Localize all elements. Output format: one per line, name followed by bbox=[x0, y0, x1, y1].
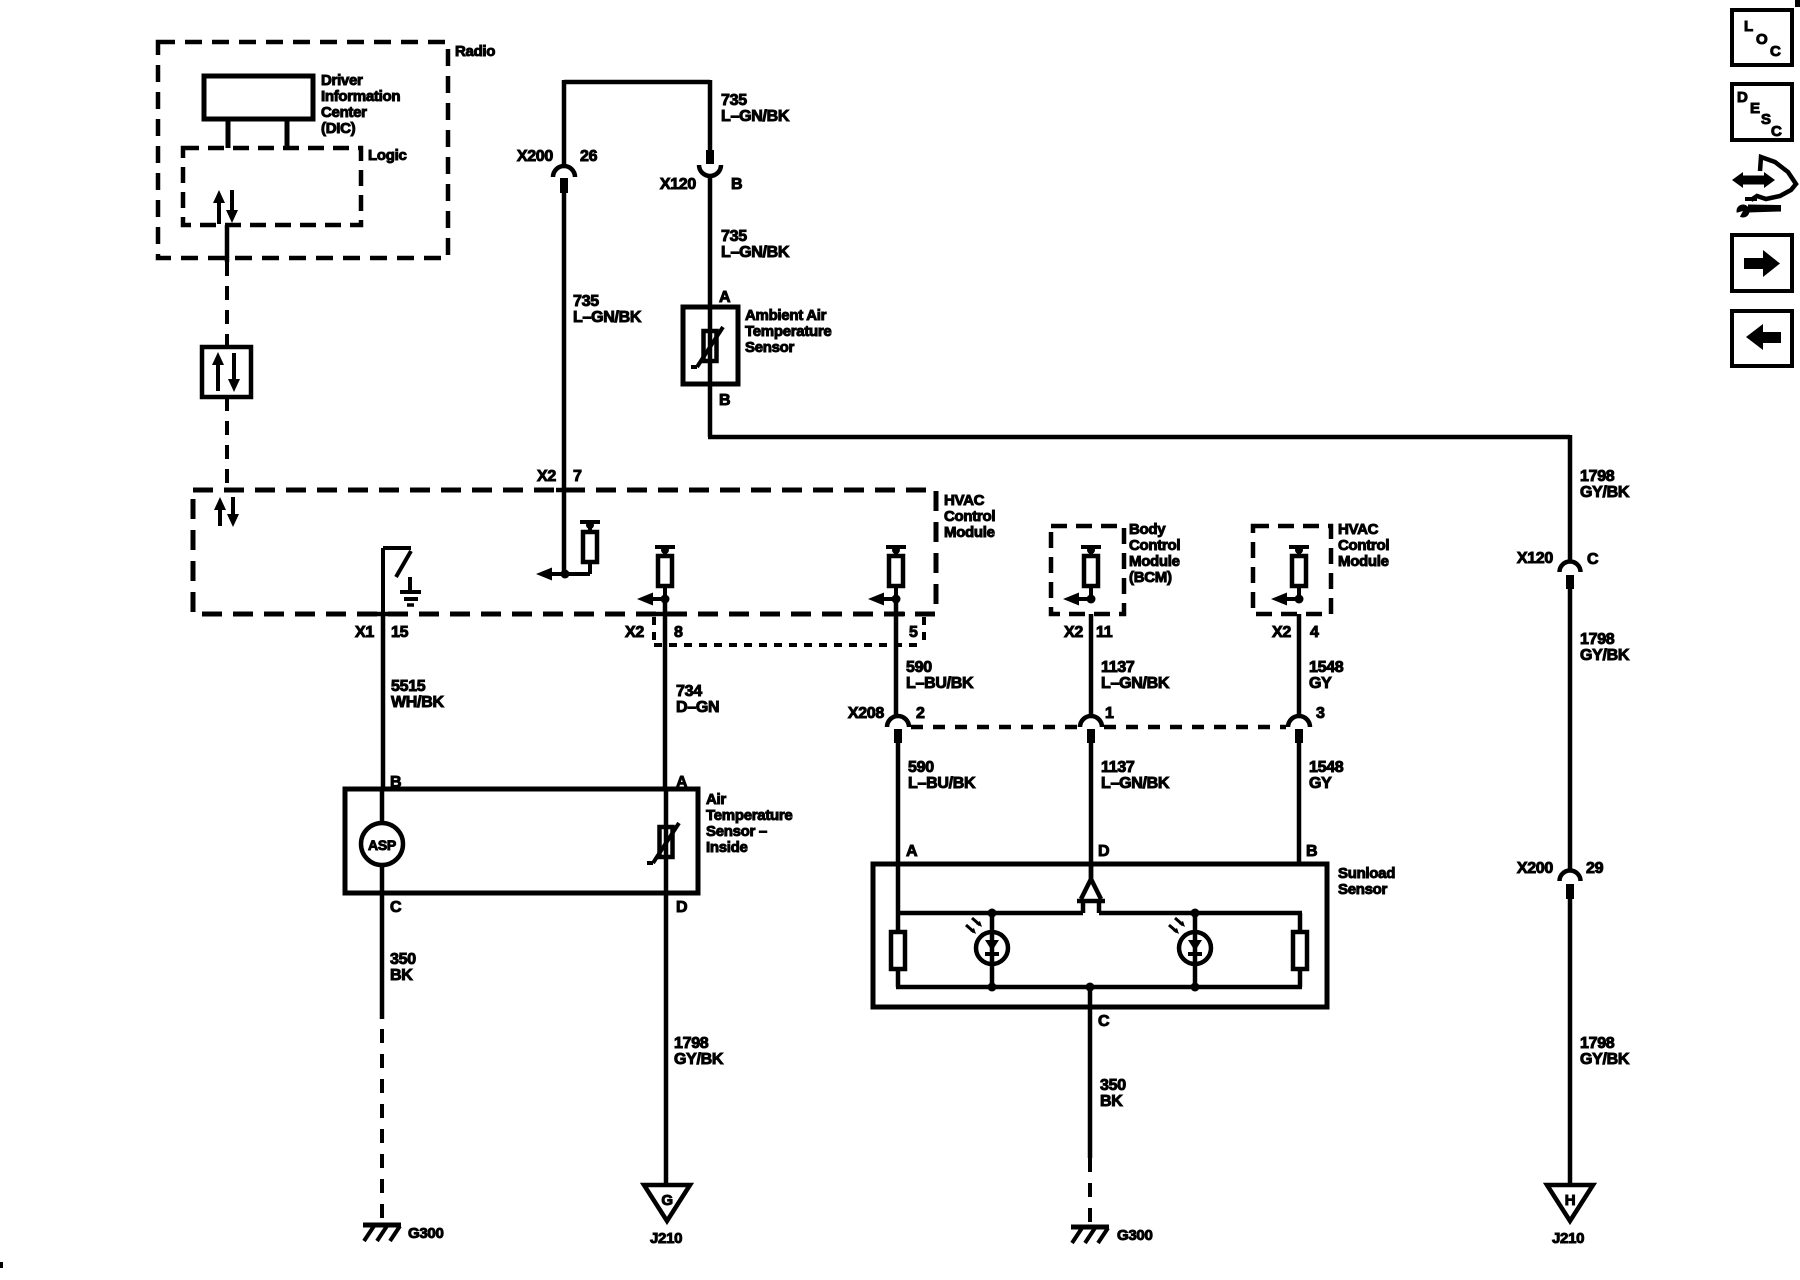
wire to connector X200 26 bbox=[562, 80, 567, 166]
svg-text:X2: X2 bbox=[537, 468, 556, 485]
X2 connector dashed region under HVAC module bbox=[654, 617, 924, 645]
pin label A inside sensor bbox=[676, 774, 688, 791]
pin label D bbox=[676, 899, 687, 916]
pin label C bbox=[390, 899, 402, 916]
wire D into sunload amplifier bbox=[1089, 864, 1094, 881]
svg-text:Module: Module bbox=[944, 524, 995, 541]
svg-text:HVAC: HVAC bbox=[944, 492, 985, 509]
wire label 590 L-BU/BK lower bbox=[908, 759, 976, 792]
edge tick X2 8 bbox=[656, 612, 674, 617]
photodiode left bbox=[966, 909, 1008, 992]
svg-text:Module: Module bbox=[1129, 553, 1180, 570]
svg-text:Sensor: Sensor bbox=[745, 339, 795, 356]
wire label 735 L-GN/BK bbox=[573, 293, 642, 326]
dashed serial data wire bbox=[225, 262, 229, 347]
svg-text:590: 590 bbox=[908, 759, 934, 776]
sunload internal top bus bbox=[896, 911, 1302, 916]
svg-text:J210: J210 bbox=[1552, 1230, 1584, 1247]
svg-text:C: C bbox=[390, 899, 402, 916]
svg-text:11: 11 bbox=[1096, 624, 1113, 641]
ambient air temperature sensor box bbox=[683, 307, 738, 384]
serial data arrows in link box bbox=[212, 352, 240, 392]
serial data link box bbox=[202, 347, 251, 397]
amplifier triangle bbox=[1077, 879, 1105, 913]
connector X120 pin C bbox=[1560, 562, 1581, 590]
svg-text:C: C bbox=[1098, 1013, 1110, 1030]
ground G300 left bbox=[363, 1225, 401, 1241]
ground G300 middle bbox=[1071, 1227, 1109, 1243]
svg-text:Driver: Driver bbox=[321, 72, 363, 89]
svg-text:1: 1 bbox=[1105, 705, 1114, 722]
svg-text:X120: X120 bbox=[1517, 550, 1554, 567]
connector X208 pin 3 bbox=[1288, 716, 1310, 743]
wire 1798 GY/BK to J210 H bbox=[1568, 899, 1573, 1185]
edge tick X2 7 bbox=[556, 488, 574, 493]
pin label B inside sensor left wire bbox=[390, 774, 401, 791]
svg-text:GY/BK: GY/BK bbox=[1580, 647, 1630, 664]
svg-text:X2: X2 bbox=[1272, 624, 1291, 641]
label G300 middle bbox=[1117, 1227, 1153, 1244]
svg-text:D: D bbox=[676, 899, 687, 916]
svg-text:734: 734 bbox=[676, 683, 702, 700]
wire through ambient sensor bbox=[708, 307, 713, 384]
X208 dashed connector line bbox=[911, 725, 1286, 730]
svg-text:1548: 1548 bbox=[1309, 659, 1344, 676]
label Ambient Air Temperature Sensor bbox=[745, 307, 831, 356]
svg-text:GY: GY bbox=[1309, 775, 1332, 792]
air temperature sensor inside box bbox=[345, 789, 698, 893]
pin labels X2 7 bbox=[537, 468, 582, 485]
svg-text:735: 735 bbox=[721, 92, 747, 109]
label HVAC Control Module right bbox=[1338, 521, 1389, 570]
wire 350 BK to G300 left solid bbox=[380, 893, 385, 1019]
svg-text:L–BU/BK: L–BU/BK bbox=[906, 675, 974, 692]
svg-text:Temperature: Temperature bbox=[706, 807, 792, 824]
svg-text:Sensor –: Sensor – bbox=[706, 823, 767, 840]
svg-text:X200: X200 bbox=[517, 148, 554, 165]
pin label 5 bbox=[909, 624, 918, 641]
label 1 bbox=[1105, 705, 1114, 722]
edge tick X1 15 bbox=[374, 612, 392, 617]
svg-text:E: E bbox=[1750, 100, 1760, 117]
wire 1798 GY/BK to X200 29 bbox=[1568, 589, 1573, 871]
svg-text:C: C bbox=[1587, 551, 1599, 568]
wire 5515 WH/BK X1-15 to sensor B bbox=[381, 614, 386, 789]
wire label 1798 GY/BK bottom bbox=[1580, 1035, 1630, 1068]
svg-text:X2: X2 bbox=[625, 624, 644, 641]
wire through sensor right bbox=[664, 789, 669, 893]
label Driver Information Center (DIC) bbox=[321, 72, 400, 137]
inside sensor thermistor bbox=[647, 823, 679, 863]
svg-text:BK: BK bbox=[1100, 1093, 1123, 1110]
serial data arrows inside HVAC module bbox=[214, 497, 239, 527]
svg-text:Module: Module bbox=[1338, 553, 1389, 570]
svg-text:H: H bbox=[1565, 1192, 1576, 1209]
svg-text:G300: G300 bbox=[408, 1225, 444, 1242]
icon DESC box bbox=[1732, 84, 1792, 140]
svg-text:C: C bbox=[1770, 43, 1781, 60]
svg-text:L–GN/BK: L–GN/BK bbox=[573, 309, 642, 326]
wire label 735 L-GN/BK top bbox=[721, 92, 790, 125]
svg-text:C: C bbox=[1771, 123, 1782, 140]
svg-text:L–BU/BK: L–BU/BK bbox=[908, 775, 976, 792]
label Logic bbox=[368, 147, 407, 164]
connector X208 pin 2 bbox=[887, 716, 909, 743]
svg-text:HVAC: HVAC bbox=[1338, 521, 1379, 538]
svg-text:S: S bbox=[1761, 111, 1771, 128]
sunload sensor box bbox=[873, 864, 1327, 1007]
edge tick pin 5 bbox=[887, 612, 905, 617]
svg-text:Body: Body bbox=[1129, 521, 1166, 538]
svg-text:GY/BK: GY/BK bbox=[674, 1051, 724, 1068]
wire 590 L-BU/BK pin5 to X208 2 bbox=[894, 599, 899, 716]
pin labels X2 11 bbox=[1064, 624, 1113, 641]
wire 1798 GY/BK ambient to X120 C bbox=[708, 384, 1570, 562]
svg-text:7: 7 bbox=[573, 468, 582, 485]
pin label B sunload bbox=[1306, 843, 1317, 860]
wire 734 D-GN pin8 to sensor A bbox=[663, 599, 668, 789]
body control module BCM dashed box bbox=[1051, 526, 1124, 614]
labels X208 2 bbox=[848, 705, 925, 722]
svg-text:X208: X208 bbox=[848, 705, 885, 722]
icon back arrow box bbox=[1732, 311, 1792, 366]
label Radio bbox=[455, 43, 495, 60]
svg-text:X2: X2 bbox=[1064, 624, 1083, 641]
svg-text:Sensor: Sensor bbox=[1338, 881, 1388, 898]
svg-text:15: 15 bbox=[391, 624, 409, 641]
svg-text:1798: 1798 bbox=[1580, 631, 1615, 648]
logic dashed box bbox=[183, 148, 361, 225]
svg-text:3: 3 bbox=[1316, 705, 1325, 722]
photodiode right bbox=[1169, 909, 1211, 992]
svg-text:26: 26 bbox=[580, 148, 598, 165]
signal arrow at pin X2 7 bbox=[536, 568, 570, 581]
driver information center DIC box bbox=[204, 76, 313, 119]
wire label 1798 GY/BK right top bbox=[1580, 468, 1630, 501]
label J210 left bbox=[650, 1230, 682, 1247]
svg-text:X200: X200 bbox=[1517, 860, 1554, 877]
svg-text:2: 2 bbox=[916, 705, 925, 722]
sunload left resistor bbox=[891, 913, 905, 987]
svg-text:D: D bbox=[1098, 843, 1109, 860]
wire label 1798 GY/BK mid bbox=[1580, 631, 1630, 664]
wire 735 L-GN/BK to ambient sensor bbox=[708, 176, 713, 307]
signal arrow HVAC right bbox=[1271, 593, 1304, 606]
internal resistor at pin X2 8 bbox=[655, 546, 675, 599]
svg-text:590: 590 bbox=[906, 659, 932, 676]
svg-text:Center: Center bbox=[321, 104, 367, 121]
svg-text:B: B bbox=[1306, 843, 1317, 860]
svg-text:L–GN/BK: L–GN/BK bbox=[721, 244, 790, 261]
pin label D sunload bbox=[1098, 843, 1109, 860]
svg-text:G: G bbox=[661, 1192, 672, 1209]
svg-text:X120: X120 bbox=[660, 176, 697, 193]
splice pack J210 G bbox=[644, 1185, 690, 1221]
labels X200 29 bbox=[1517, 860, 1604, 877]
ambient sensor thermistor bbox=[691, 327, 723, 367]
wire 1798 GY/BK sensor D to J210 G bbox=[664, 893, 669, 1185]
svg-text:B: B bbox=[719, 392, 730, 409]
signal arrow BCM bbox=[1063, 593, 1096, 606]
labels X120 C bbox=[1517, 550, 1599, 568]
page corner mark bbox=[1795, 0, 1800, 7]
wire 1548 GY to X208 3 bbox=[1297, 614, 1302, 716]
svg-text:Control: Control bbox=[944, 508, 995, 525]
svg-text:GY: GY bbox=[1309, 675, 1332, 692]
wire C out of sunload bbox=[1088, 987, 1093, 1158]
pin labels X2 4 bbox=[1272, 624, 1319, 641]
sunload right resistor bbox=[1293, 913, 1307, 987]
wire label 1548 GY lower bbox=[1309, 759, 1344, 792]
svg-text:Temperature: Temperature bbox=[745, 323, 831, 340]
svg-text:Control: Control bbox=[1129, 537, 1180, 554]
svg-text:1137: 1137 bbox=[1101, 659, 1135, 676]
svg-text:L: L bbox=[1744, 18, 1753, 35]
dashed wire to G300 middle bbox=[1088, 1158, 1092, 1222]
pin labels X1 15 bbox=[355, 624, 409, 641]
label Body Control Module BCM bbox=[1129, 521, 1180, 586]
svg-text:D: D bbox=[1737, 89, 1748, 106]
svg-text:ASP: ASP bbox=[368, 837, 396, 853]
pin labels X2 8 bbox=[625, 624, 683, 641]
sunload internal bottom bus bbox=[896, 983, 1302, 992]
svg-text:4: 4 bbox=[1310, 624, 1319, 641]
wire 1137 L-GN/BK to X208 1 bbox=[1089, 614, 1094, 716]
svg-text:Ambient Air: Ambient Air bbox=[745, 307, 827, 324]
svg-text:Air: Air bbox=[706, 791, 726, 808]
labels X200 26 bbox=[517, 148, 598, 165]
internal resistor HVAC pin X2 4 bbox=[1289, 546, 1309, 599]
svg-text:WH/BK: WH/BK bbox=[391, 694, 444, 711]
wire label 1137 L-GN/BK upper bbox=[1101, 659, 1170, 692]
svg-text:Inside: Inside bbox=[706, 839, 748, 856]
icon forward arrow box bbox=[1732, 235, 1792, 291]
pin label C sunload bbox=[1098, 1013, 1110, 1030]
wire label 734 D-GN bbox=[676, 683, 719, 716]
svg-text:1798: 1798 bbox=[1580, 1035, 1615, 1052]
svg-text:29: 29 bbox=[1586, 860, 1604, 877]
wire 1548 GY to sunload B bbox=[1297, 743, 1302, 864]
wire 1137 L-GN/BK to sunload D bbox=[1089, 743, 1094, 878]
svg-text:735: 735 bbox=[573, 293, 599, 310]
svg-text:J210: J210 bbox=[650, 1230, 682, 1247]
svg-text:X1: X1 bbox=[355, 624, 374, 641]
svg-text:D–GN: D–GN bbox=[676, 699, 719, 716]
svg-text:Sunload: Sunload bbox=[1338, 865, 1395, 882]
svg-text:G300: G300 bbox=[1117, 1227, 1153, 1244]
wire 735 L-GN/BK to HVAC pin 7 bbox=[562, 193, 567, 574]
svg-text:1137: 1137 bbox=[1101, 759, 1135, 776]
svg-text:1798: 1798 bbox=[1580, 468, 1615, 485]
wire label 1798 GY/BK left bbox=[674, 1035, 724, 1068]
svg-text:350: 350 bbox=[1100, 1077, 1126, 1094]
svg-text:Information: Information bbox=[321, 88, 400, 105]
svg-text:350: 350 bbox=[390, 951, 416, 968]
internal resistor BCM pin X2 11 bbox=[1081, 546, 1101, 599]
label Air Temperature Sensor Inside bbox=[706, 791, 792, 856]
svg-text:1798: 1798 bbox=[674, 1035, 709, 1052]
icon harness routing squiggle bbox=[1732, 157, 1796, 222]
aspirator motor ASP bbox=[361, 789, 403, 893]
svg-text:BK: BK bbox=[390, 967, 413, 984]
connector X208 pin 1 bbox=[1080, 716, 1102, 743]
svg-text:Radio: Radio bbox=[455, 43, 495, 60]
dashed serial data wire to HVAC module bbox=[225, 397, 229, 490]
internal ground switch at pin X1 15 bbox=[383, 548, 421, 614]
wire logic box to radio edge bbox=[225, 225, 230, 262]
signal arrow at pin X2 5 bbox=[868, 593, 901, 606]
HVAC control module right dashed box bbox=[1253, 526, 1331, 614]
svg-text:735: 735 bbox=[721, 228, 747, 245]
wire label 1548 GY upper bbox=[1309, 659, 1344, 692]
wire label 735 L-GN/BK second bbox=[721, 228, 790, 261]
svg-text:L–GN/BK: L–GN/BK bbox=[721, 108, 790, 125]
internal resistor at pin X2 5 bbox=[886, 546, 906, 599]
svg-text:A: A bbox=[719, 289, 731, 306]
label J210 right bbox=[1552, 1230, 1584, 1247]
svg-text:(DIC): (DIC) bbox=[321, 120, 356, 137]
pin label B ambient bbox=[719, 392, 730, 409]
serial data arrows in logic box bbox=[213, 190, 238, 224]
label G300 left bbox=[408, 1225, 444, 1242]
dashed wire to G300 left bbox=[380, 1029, 384, 1222]
label HVAC Control Module bbox=[944, 492, 995, 541]
wire label 350 BK middle bbox=[1100, 1077, 1126, 1110]
svg-text:L–GN/BK: L–GN/BK bbox=[1101, 775, 1170, 792]
splice pack J210 H bbox=[1547, 1185, 1593, 1221]
left margin mark bbox=[0, 1262, 3, 1268]
wire label 1137 L-GN/BK lower bbox=[1101, 759, 1170, 792]
pin label A ambient bbox=[719, 289, 731, 306]
svg-text:5: 5 bbox=[909, 624, 918, 641]
DIC connection legs bbox=[228, 119, 287, 148]
icon LOC box bbox=[1732, 10, 1792, 65]
svg-text:5515: 5515 bbox=[391, 678, 426, 695]
wire label 5515 WH/BK bbox=[391, 678, 444, 711]
wire top horizontal run bbox=[564, 80, 710, 85]
connector X200 pin 26 bbox=[553, 166, 575, 193]
svg-text:A: A bbox=[906, 843, 918, 860]
labels X120 B bbox=[660, 176, 742, 193]
internal resistor at pin X2 7 bbox=[565, 521, 600, 574]
wire label 590 L-BU/BK upper bbox=[906, 659, 974, 692]
connector X120 pin B bbox=[699, 150, 721, 176]
wire to connector X120 B bbox=[708, 80, 713, 150]
HVAC control module dashed box bbox=[193, 490, 936, 614]
svg-text:B: B bbox=[731, 176, 742, 193]
pin label A sunload bbox=[906, 843, 918, 860]
svg-text:L–GN/BK: L–GN/BK bbox=[1101, 675, 1170, 692]
svg-text:GY/BK: GY/BK bbox=[1580, 484, 1630, 501]
connector X200 pin 29 bbox=[1560, 871, 1581, 900]
wire A into sunload bbox=[896, 864, 901, 913]
svg-text:O: O bbox=[1756, 31, 1768, 48]
label 3 bbox=[1316, 705, 1325, 722]
radio module dashed box bbox=[158, 42, 448, 258]
svg-text:Control: Control bbox=[1338, 537, 1389, 554]
svg-text:(BCM): (BCM) bbox=[1129, 569, 1172, 586]
svg-text:1548: 1548 bbox=[1309, 759, 1344, 776]
svg-text:GY/BK: GY/BK bbox=[1580, 1051, 1630, 1068]
svg-text:8: 8 bbox=[674, 624, 683, 641]
label Sunload Sensor bbox=[1338, 865, 1395, 898]
wire 590 L-BU/BK to sunload A bbox=[896, 743, 901, 864]
svg-text:Logic: Logic bbox=[368, 147, 407, 164]
wire label 350 BK left bbox=[390, 951, 416, 984]
signal arrow at pin X2 8 bbox=[637, 593, 670, 606]
